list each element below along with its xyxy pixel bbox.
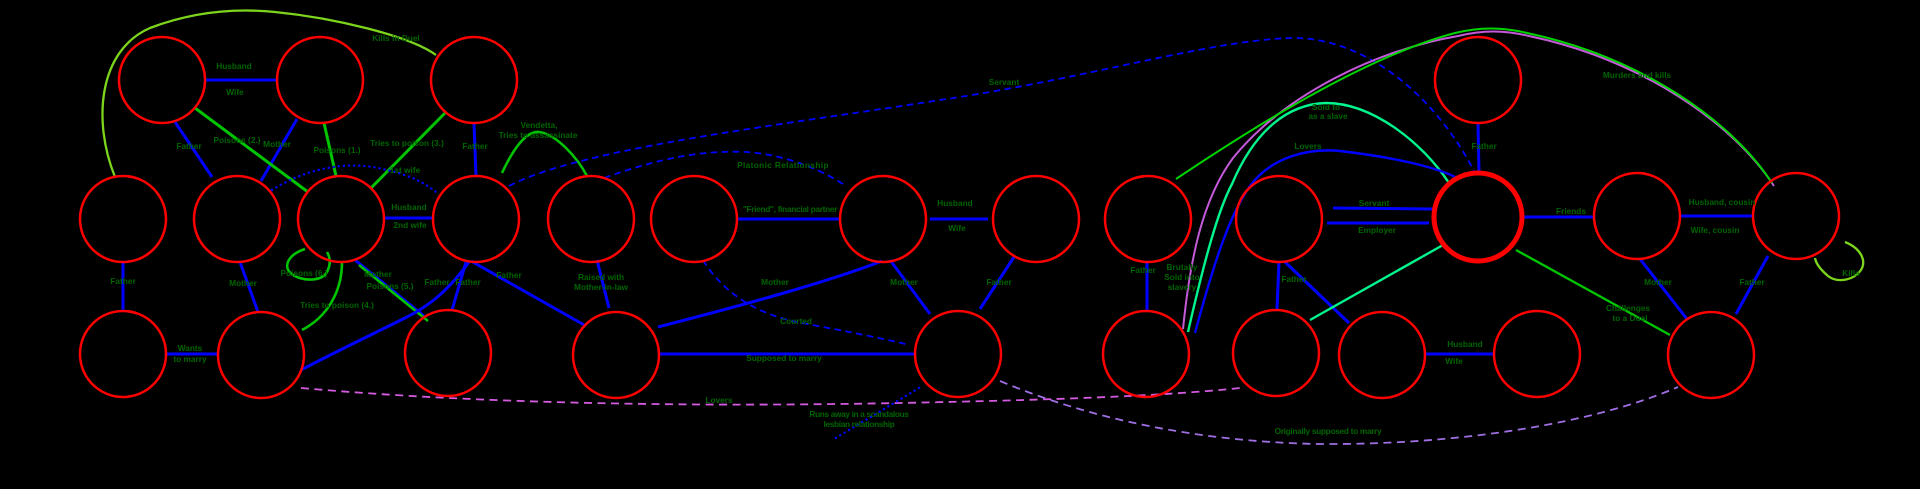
- svg-text:1st wife: 1st wife: [390, 165, 421, 175]
- edge N23-N15 Lovers (blue curve): [1195, 150, 1459, 333]
- edge N12-N22 Father: [980, 257, 1014, 309]
- svg-text:Supposed to marry: Supposed to marry: [746, 353, 822, 363]
- svg-text:Father: Father: [1130, 265, 1156, 275]
- edge N8-N20 Father: [452, 262, 466, 310]
- edge N15-N16 Friends: [1524, 216, 1593, 219]
- svg-text:Husband: Husband: [937, 198, 973, 208]
- edge N17 self-loop Kills: [1815, 242, 1863, 280]
- edge N23-N17 Brutally sold into slavery (purple arc): [1183, 32, 1774, 330]
- svg-text:Poisons (1.): Poisons (1.): [313, 145, 360, 155]
- svg-text:Platonic Relationship: Platonic Relationship: [737, 160, 829, 170]
- svg-text:Father: Father: [110, 276, 136, 286]
- svg-text:lesbian relationship: lesbian relationship: [824, 419, 895, 429]
- node N9: [548, 176, 634, 262]
- svg-text:Mother: Mother: [263, 139, 291, 149]
- svg-text:Courted: Courted: [780, 316, 812, 326]
- svg-text:Father: Father: [455, 277, 481, 287]
- edge N7-N20 Poisons (5.): [359, 265, 428, 321]
- node N6: [194, 176, 280, 262]
- svg-text:Employer: Employer: [1358, 225, 1397, 235]
- node N13: [1105, 176, 1191, 262]
- svg-text:Mother-in-law: Mother-in-law: [574, 282, 628, 292]
- node N17: [1753, 173, 1839, 259]
- edge N21-N22 Supposed to marry: [659, 353, 915, 356]
- edge N22 Runs away dotted: [834, 388, 919, 439]
- svg-text:Vendetta,: Vendetta,: [521, 120, 558, 130]
- edge N14-N15 Servant: [1333, 208, 1433, 209]
- edge N8-N21 Father: [471, 261, 586, 326]
- svg-text:Husband: Husband: [1447, 339, 1483, 349]
- svg-text:Father: Father: [986, 277, 1012, 287]
- svg-text:Raised with: Raised with: [578, 272, 624, 282]
- svg-text:Tries to assassinate: Tries to assassinate: [499, 130, 578, 140]
- edge N7-N8 Husband/2nd wife: [384, 217, 433, 220]
- edge N11-N22 Mother: [890, 260, 930, 314]
- edge N2-N7 Poisons (1.): [324, 123, 336, 176]
- svg-text:Father: Father: [462, 141, 488, 151]
- edge N16-N17 Husband cousin/Wife cousin: [1681, 215, 1752, 218]
- edge N1-N6 Father: [175, 122, 212, 177]
- edge N23-N15 Sold to as a slave (springgreen): [1188, 103, 1449, 332]
- svg-text:"Friend", financial partner: "Friend", financial partner: [743, 204, 838, 214]
- svg-text:as a slave: as a slave: [1308, 111, 1348, 121]
- node N4: [1435, 37, 1521, 123]
- edge N11-N21 Mother: [658, 261, 882, 327]
- node N22: [915, 311, 1001, 397]
- edge N14-N24 Father: [1277, 262, 1279, 309]
- svg-text:Poisons (6.): Poisons (6.): [280, 268, 327, 278]
- node N26: [1494, 311, 1580, 397]
- svg-text:Mother: Mother: [1644, 277, 1672, 287]
- edge N15-N27 Challenges to a Duel: [1516, 250, 1670, 335]
- svg-text:Husband, cousin: Husband, cousin: [1689, 197, 1756, 207]
- svg-text:Wife: Wife: [948, 223, 966, 233]
- svg-text:Father: Father: [1471, 141, 1497, 151]
- svg-text:Murders and kills: Murders and kills: [1603, 70, 1672, 80]
- svg-text:Mother: Mother: [890, 277, 918, 287]
- svg-text:Husband: Husband: [391, 202, 427, 212]
- edge N22-N27 Originally supposed to marry (dashed): [1000, 381, 1678, 444]
- svg-text:Poisons (5.): Poisons (5.): [366, 281, 413, 291]
- edge N18-N19 Wants to marry: [166, 353, 218, 356]
- edge N5-N18 Father: [122, 262, 125, 311]
- svg-text:Wife, cousin: Wife, cousin: [1691, 225, 1740, 235]
- edge N6-N8 1st wife (dotted): [272, 166, 436, 192]
- edge N8-N15 Servant (dashed long arc): [509, 38, 1474, 186]
- node N8: [433, 176, 519, 262]
- edge N15-N24 teal straight: [1310, 245, 1443, 320]
- edge N11-N12 Husband/Wife: [930, 218, 988, 221]
- svg-text:Kills: Kills: [1842, 268, 1860, 278]
- svg-text:Servant: Servant: [1359, 198, 1390, 208]
- edge N6-N19 Mother: [240, 262, 258, 312]
- node N12: [993, 176, 1079, 262]
- node N21: [573, 312, 659, 398]
- svg-text:Servant: Servant: [989, 77, 1020, 87]
- svg-text:Brutally: Brutally: [1167, 262, 1198, 272]
- node N27: [1668, 312, 1754, 398]
- edge N5-N3 Kills in Duel: [102, 11, 436, 177]
- edge N3-N8 Father: [474, 123, 476, 176]
- svg-text:Kills in Duel: Kills in Duel: [372, 33, 419, 43]
- edge N13-N17 Murders and kills (green arc): [1176, 29, 1772, 184]
- node N24: [1233, 310, 1319, 396]
- edge N7 self-loop Poisons (6.): [287, 249, 329, 280]
- node N23: [1103, 311, 1189, 397]
- edge N8-N19 Father: [301, 262, 469, 370]
- edge N14-N25 Father: [1285, 262, 1349, 323]
- node N18: [80, 311, 166, 397]
- node N15: [1434, 173, 1522, 261]
- edge N14-N15 Employer: [1327, 222, 1429, 225]
- edge N9-N11 Platonic Relationship (dashed): [604, 152, 846, 186]
- node N3: [431, 37, 517, 123]
- svg-text:Friends: Friends: [1556, 206, 1586, 216]
- node N16: [1594, 173, 1680, 259]
- svg-text:Runs away in a scandalous: Runs away in a scandalous: [809, 409, 909, 419]
- svg-text:Originally supposed to marry: Originally supposed to marry: [1275, 426, 1383, 436]
- node N14: [1236, 176, 1322, 262]
- node N7: [298, 176, 384, 262]
- edge N7-N20 Mother: [355, 260, 424, 316]
- edge N4-N15 Father: [1478, 124, 1479, 171]
- svg-text:Lovers: Lovers: [1294, 141, 1322, 151]
- svg-text:Mother: Mother: [761, 277, 789, 287]
- svg-text:Tries to poison (3.): Tries to poison (3.): [370, 138, 444, 148]
- node N11: [840, 176, 926, 262]
- svg-text:to marry: to marry: [173, 354, 207, 364]
- node N10: [651, 176, 737, 262]
- svg-text:Tries to poison (4.): Tries to poison (4.): [300, 300, 374, 310]
- svg-text:Sold into: Sold into: [1164, 272, 1200, 282]
- edge N1-N2 Husband/Wife: [206, 79, 276, 82]
- svg-text:Father: Father: [424, 277, 450, 287]
- node N19: [218, 312, 304, 398]
- svg-text:Wife: Wife: [1445, 356, 1463, 366]
- svg-text:Wants: Wants: [178, 343, 203, 353]
- node N20: [405, 310, 491, 396]
- edge N10-N11 Friend, financial partner: [737, 218, 840, 221]
- svg-text:Lovers: Lovers: [705, 395, 733, 405]
- node N2: [277, 37, 363, 123]
- svg-text:slavery: slavery: [1168, 282, 1197, 292]
- edge N8-N9 Vendetta, Tries to assassinate: [502, 132, 587, 176]
- svg-text:Wife: Wife: [226, 87, 244, 97]
- edge N10-N22 Courted (dashed curve): [703, 260, 910, 345]
- edge N19-N24 Lovers (dashed): [301, 388, 1240, 405]
- edge N3-N7 Tries to poison (3.): [370, 112, 446, 189]
- svg-text:Husband: Husband: [216, 61, 252, 71]
- svg-text:Mother: Mother: [229, 278, 257, 288]
- edge N2-N6 Mother: [261, 119, 297, 181]
- svg-text:Father: Father: [1739, 277, 1765, 287]
- svg-text:Father: Father: [1281, 274, 1307, 284]
- svg-text:Mother: Mother: [364, 269, 392, 279]
- edge N25-N26 Husband/Wife: [1425, 353, 1494, 356]
- svg-text:Father: Father: [176, 141, 202, 151]
- node N5: [80, 176, 166, 262]
- svg-text:to a Duel: to a Duel: [1612, 313, 1647, 323]
- node N25: [1339, 312, 1425, 398]
- node N1: [119, 37, 205, 123]
- svg-text:2nd wife: 2nd wife: [393, 220, 427, 230]
- edge N17-N27 Father: [1736, 256, 1768, 314]
- edge N1-N7 Poisons (2.): [195, 108, 308, 192]
- edge N7-N19 Tries to poison (4.): [302, 262, 342, 330]
- svg-text:Poisons (2.): Poisons (2.): [213, 135, 260, 145]
- svg-text:Father: Father: [496, 270, 522, 280]
- edge N13-N23 Father: [1146, 262, 1149, 310]
- svg-text:Challenges: Challenges: [1606, 303, 1651, 313]
- edge N16-N27 Mother: [1640, 259, 1687, 319]
- edge N9-N21 Raised with Mother-in-law: [597, 260, 609, 308]
